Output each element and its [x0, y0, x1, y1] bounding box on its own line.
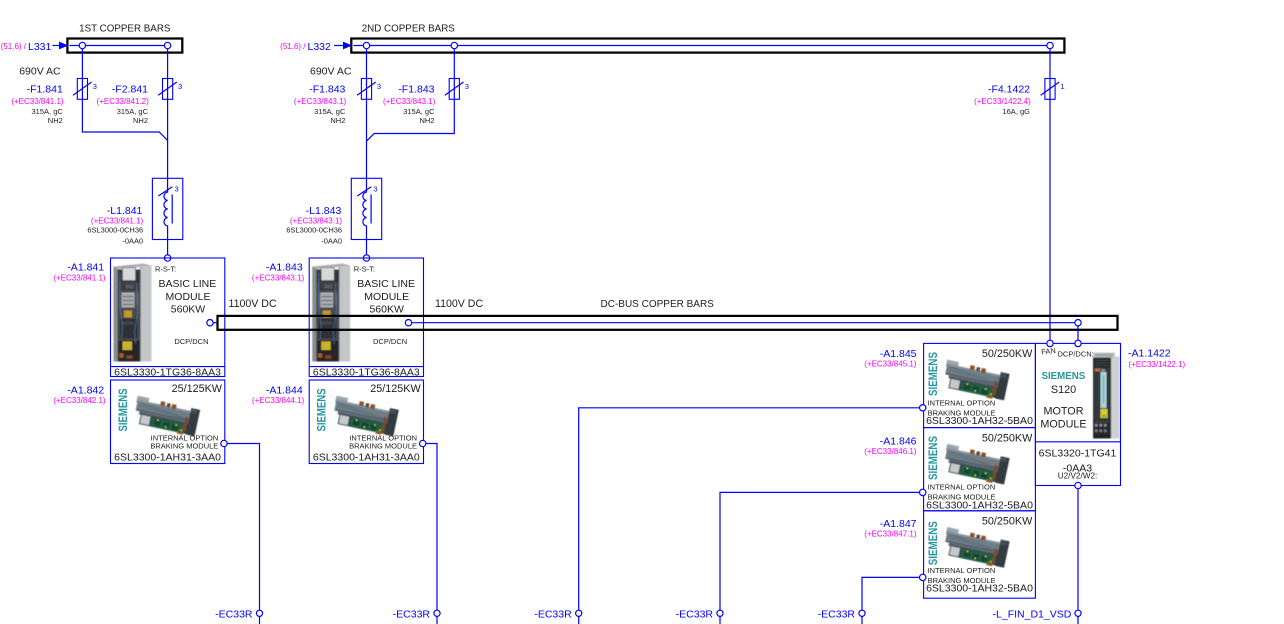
svg-text:-F1.843: -F1.843 [309, 84, 345, 96]
svg-text:-EC33R: -EC33R [676, 608, 714, 620]
node motor module DCP/DCN [1075, 340, 1081, 346]
wire fuse F1.841 drop [82, 49, 167, 141]
braking module A1.842 [111, 380, 225, 464]
svg-text:-A1.847: -A1.847 [880, 518, 917, 530]
label L1.841 [87, 205, 143, 246]
svg-text:690V AC: 690V AC [19, 65, 61, 77]
svg-text:R-S-T:: R-S-T: [155, 265, 176, 274]
svg-text:1: 1 [1060, 82, 1064, 91]
node DC bus right tap [1075, 320, 1081, 326]
svg-text:315A, gC: 315A, gC [314, 107, 346, 116]
svg-text:6SL3000-0CH36: 6SL3000-0CH36 [286, 225, 342, 234]
node EC33R 2 [393, 608, 440, 624]
svg-text:SIEMENS: SIEMENS [116, 389, 130, 432]
label A1.846 [864, 435, 917, 456]
svg-text:(+EC33/841.2): (+EC33/841.2) [97, 97, 150, 106]
svg-text:SIEMENS: SIEMENS [315, 389, 329, 432]
svg-text:-A1.845: -A1.845 [880, 348, 917, 360]
node A1.842 output [221, 440, 227, 446]
wire bar2 internal [353, 45, 1050, 47]
svg-text:INTERNAL OPTION: INTERNAL OPTION [928, 566, 996, 575]
svg-text:-F4.1422: -F4.1422 [988, 84, 1030, 96]
label L1.843 [286, 205, 342, 246]
svg-text:DCP/DCN: DCP/DCN [174, 337, 208, 346]
svg-text:-F2.841: -F2.841 [112, 84, 148, 96]
label A1.843 [252, 262, 305, 283]
svg-text:BASIC LINE: BASIC LINE [159, 278, 217, 290]
svg-text:INTERNAL OPTION: INTERNAL OPTION [928, 483, 996, 492]
svg-text:(+EC33/844.1): (+EC33/844.1) [252, 396, 305, 405]
svg-text:6SL3300-1AH31-3AA0: 6SL3300-1AH31-3AA0 [313, 451, 420, 463]
svg-text:-F1.843: -F1.843 [398, 84, 434, 96]
node bar2 tap2 [451, 42, 457, 48]
svg-text:DCP/DCN: DCP/DCN [373, 337, 407, 346]
svg-text:50/250KW: 50/250KW [982, 348, 1033, 360]
node bar1 tap1 [79, 42, 85, 48]
label F1.841 [11, 84, 64, 126]
node EC33R 3 [534, 608, 581, 624]
svg-text:(+EC33/841.1): (+EC33/841.1) [53, 274, 106, 283]
busbar 1ST COPPER BARS [67, 24, 182, 53]
wire A1.846 output to EC33R [720, 492, 920, 610]
svg-text:-A1.841: -A1.841 [67, 262, 104, 274]
svg-text:25/125KW: 25/125KW [172, 383, 223, 395]
node A1.846 output [920, 489, 926, 495]
svg-text:-EC33R: -EC33R [215, 608, 253, 620]
node bar2 tap1 [363, 42, 369, 48]
svg-text:(51.6) /: (51.6) / [280, 42, 306, 51]
svg-text:SIEMENS: SIEMENS [1042, 370, 1086, 382]
busbar DC-BUS COPPER BARS [218, 298, 1118, 330]
svg-text:-EC33R: -EC33R [534, 608, 572, 620]
label A1.845 [864, 348, 917, 369]
label F2.841 [97, 84, 150, 126]
svg-text:BRAKING MODULE: BRAKING MODULE [349, 441, 417, 450]
svg-text:L331: L331 [28, 41, 52, 53]
svg-text:(+EC33/846.1): (+EC33/846.1) [864, 447, 917, 456]
svg-text:6SL3330-1TG36-8AA3: 6SL3330-1TG36-8AA3 [114, 366, 221, 378]
wire fuse F4.1422 drop [1049, 49, 1051, 341]
node module A1.843 input [363, 255, 369, 261]
svg-text:(+EC33/1422.1): (+EC33/1422.1) [1129, 360, 1186, 369]
braking module A1.847 [924, 511, 1036, 598]
fuse F1.843b [445, 79, 469, 100]
wire A1.845 output to EC33R [579, 408, 920, 610]
svg-text:MODULE: MODULE [1040, 418, 1086, 430]
svg-text:315A, gC: 315A, gC [117, 107, 149, 116]
wire motor module output [1077, 489, 1079, 611]
fuse F1.843a [357, 79, 381, 100]
svg-text:25/125KW: 25/125KW [370, 383, 421, 395]
svg-text:DC-BUS COPPER BARS: DC-BUS COPPER BARS [601, 299, 715, 310]
svg-text:1100V DC: 1100V DC [229, 298, 277, 310]
svg-text:-EC33R: -EC33R [393, 608, 431, 620]
svg-text:6SL3300-1AH32-5BA0: 6SL3300-1AH32-5BA0 [926, 500, 1033, 512]
svg-text:(51.6) /: (51.6) / [1, 42, 27, 51]
wire bar1 internal [70, 45, 168, 47]
svg-text:3: 3 [93, 82, 97, 91]
feeder arrow L331 [1, 41, 69, 53]
svg-text:-0AA0: -0AA0 [122, 237, 143, 246]
fuse F2.841 [158, 79, 182, 100]
fuse F1.841 [73, 79, 97, 100]
node A1.844 output [420, 440, 426, 446]
node EC33R 1 [215, 608, 262, 624]
svg-text:-L1.843: -L1.843 [306, 205, 342, 217]
svg-text:(+EC33/841.1): (+EC33/841.1) [91, 217, 144, 226]
svg-text:6SL3300-1AH32-5BA0: 6SL3300-1AH32-5BA0 [926, 415, 1033, 427]
svg-text:(+EC33/841.1): (+EC33/841.1) [11, 97, 64, 106]
svg-text:MOTOR: MOTOR [1044, 405, 1084, 417]
svg-text:1ST COPPER BARS: 1ST COPPER BARS [79, 24, 171, 35]
basic line module A1.841 [111, 258, 225, 378]
svg-text:NH2: NH2 [48, 116, 63, 125]
svg-text:3: 3 [175, 185, 179, 194]
svg-text:1100V DC: 1100V DC [435, 298, 483, 310]
node bar1 tap2 [164, 42, 170, 48]
label F4.1422 [974, 84, 1031, 117]
svg-text:U2/V2/W2:: U2/V2/W2: [1058, 472, 1098, 481]
svg-text:BASIC LINE: BASIC LINE [357, 278, 415, 290]
wire fuse F2.841 drop [167, 49, 169, 179]
svg-text:-A1.843: -A1.843 [266, 262, 303, 274]
svg-text:(+EC33/842.1): (+EC33/842.1) [53, 396, 106, 405]
svg-text:SIEMENS: SIEMENS [926, 352, 940, 396]
node A1.841 DCP/DCN + stub [207, 320, 218, 326]
label F1.843a [294, 84, 347, 126]
svg-text:-A1.846: -A1.846 [880, 435, 917, 447]
svg-text:50/250KW: 50/250KW [982, 432, 1033, 444]
svg-text:-EC33R: -EC33R [818, 608, 856, 620]
svg-text:2ND COPPER BARS: 2ND COPPER BARS [362, 24, 456, 35]
braking module A1.844 [309, 380, 423, 464]
svg-text:6SL3300-1AH31-3AA0: 6SL3300-1AH31-3AA0 [114, 451, 221, 463]
wire DC bus tap to motor module [1077, 326, 1079, 340]
svg-text:3: 3 [178, 82, 182, 91]
svg-text:MODULE: MODULE [364, 291, 409, 303]
svg-text:3: 3 [377, 82, 381, 91]
svg-text:560KW: 560KW [369, 304, 404, 316]
node A1.847 output [920, 574, 926, 580]
svg-text:-L_FIN_D1_VSD: -L_FIN_D1_VSD [993, 608, 1072, 620]
svg-text:-A1.844: -A1.844 [266, 384, 303, 396]
svg-text:(+EC33/847.1): (+EC33/847.1) [864, 530, 917, 539]
busbar 2ND COPPER BARS [351, 24, 1064, 53]
feeder arrow L332 [280, 41, 352, 53]
node motor module bottom [1075, 482, 1081, 488]
node motor module FAN [1047, 340, 1053, 346]
node L_FIN_D1_VSD [993, 608, 1082, 624]
svg-text:-A1.842: -A1.842 [67, 384, 104, 396]
label A1.842 [53, 384, 106, 405]
svg-text:315A, gC: 315A, gC [403, 107, 435, 116]
svg-text:SIEMENS: SIEMENS [926, 521, 940, 565]
node A1.845 output [920, 405, 926, 411]
svg-text:690V AC: 690V AC [310, 65, 352, 77]
wire A1.847 output to EC33R [862, 577, 920, 610]
svg-text:3: 3 [465, 82, 469, 91]
node module A1.841 input [164, 255, 170, 261]
svg-text:SIEMENS: SIEMENS [926, 436, 940, 480]
svg-text:NH2: NH2 [330, 116, 345, 125]
line reactor L1.841 [152, 178, 182, 239]
line reactor L1.843 [351, 178, 381, 239]
svg-text:(+EC33/843.1): (+EC33/843.1) [252, 274, 305, 283]
fuse F4.1422 [1041, 79, 1065, 100]
label A1.1422 [1128, 347, 1186, 369]
braking module A1.846 [924, 428, 1036, 512]
svg-text:3: 3 [373, 185, 377, 194]
wire A1.844 output to EC33R [426, 444, 437, 611]
label A1.847 [864, 518, 917, 539]
svg-text:INTERNAL OPTION: INTERNAL OPTION [928, 398, 996, 407]
svg-text:FAN: FAN [1041, 346, 1056, 356]
svg-text:L332: L332 [308, 41, 332, 53]
wire A1.842 output to EC33R [227, 444, 259, 611]
svg-text:NH2: NH2 [419, 116, 434, 125]
node EC33R 5 [818, 608, 865, 624]
svg-text:DCP/DCN:: DCP/DCN: [1058, 350, 1094, 359]
svg-text:16A, gG: 16A, gG [1002, 107, 1030, 116]
svg-text:(+EC33/1422.4): (+EC33/1422.4) [974, 97, 1031, 106]
svg-text:6SL3320-1TG41: 6SL3320-1TG41 [1039, 448, 1117, 460]
svg-text:-0AA0: -0AA0 [321, 237, 342, 246]
svg-text:-F1.841: -F1.841 [27, 84, 63, 96]
svg-text:NH2: NH2 [133, 116, 148, 125]
node A1.843 DCP/DCN [405, 320, 411, 326]
basic line module A1.843 [309, 258, 423, 378]
braking module A1.845 [924, 343, 1036, 427]
wire DC bus internal [412, 322, 1078, 324]
svg-text:6SL3300-1AH32-5BA0: 6SL3300-1AH32-5BA0 [926, 582, 1033, 594]
svg-text:(+EC33/843.1): (+EC33/843.1) [383, 97, 436, 106]
svg-text:-L1.841: -L1.841 [107, 205, 143, 217]
svg-text:560KW: 560KW [171, 304, 206, 316]
wire fuse F1.843b drop [367, 49, 455, 142]
label A1.841 [53, 262, 106, 283]
label F1.843b [383, 84, 436, 126]
wire L1.843 to module [366, 240, 368, 255]
svg-text:6SL3000-0CH36: 6SL3000-0CH36 [87, 225, 143, 234]
svg-text:BRAKING MODULE: BRAKING MODULE [150, 441, 218, 450]
svg-text:50/250KW: 50/250KW [982, 516, 1033, 528]
svg-text:(+EC33/843.1): (+EC33/843.1) [294, 97, 347, 106]
svg-text:315A, gC: 315A, gC [32, 107, 64, 116]
wire L1.841 to module [167, 240, 169, 255]
node bar2 tap3 [1047, 42, 1053, 48]
svg-text:-A1.1422: -A1.1422 [1128, 347, 1171, 359]
svg-text:MODULE: MODULE [166, 291, 211, 303]
svg-text:S120: S120 [1051, 384, 1076, 396]
label A1.844 [252, 384, 305, 405]
svg-text:(+EC33/845.1): (+EC33/845.1) [864, 360, 917, 369]
wire fuse F1.843a drop [366, 49, 368, 179]
svg-text:6SL3330-1TG36-8AA3: 6SL3330-1TG36-8AA3 [313, 366, 420, 378]
node EC33R 4 [676, 608, 723, 624]
motor module A1.1422 [1035, 343, 1120, 485]
svg-text:(+EC33/843.1): (+EC33/843.1) [290, 217, 343, 226]
svg-text:R-S-T:: R-S-T: [354, 265, 375, 274]
